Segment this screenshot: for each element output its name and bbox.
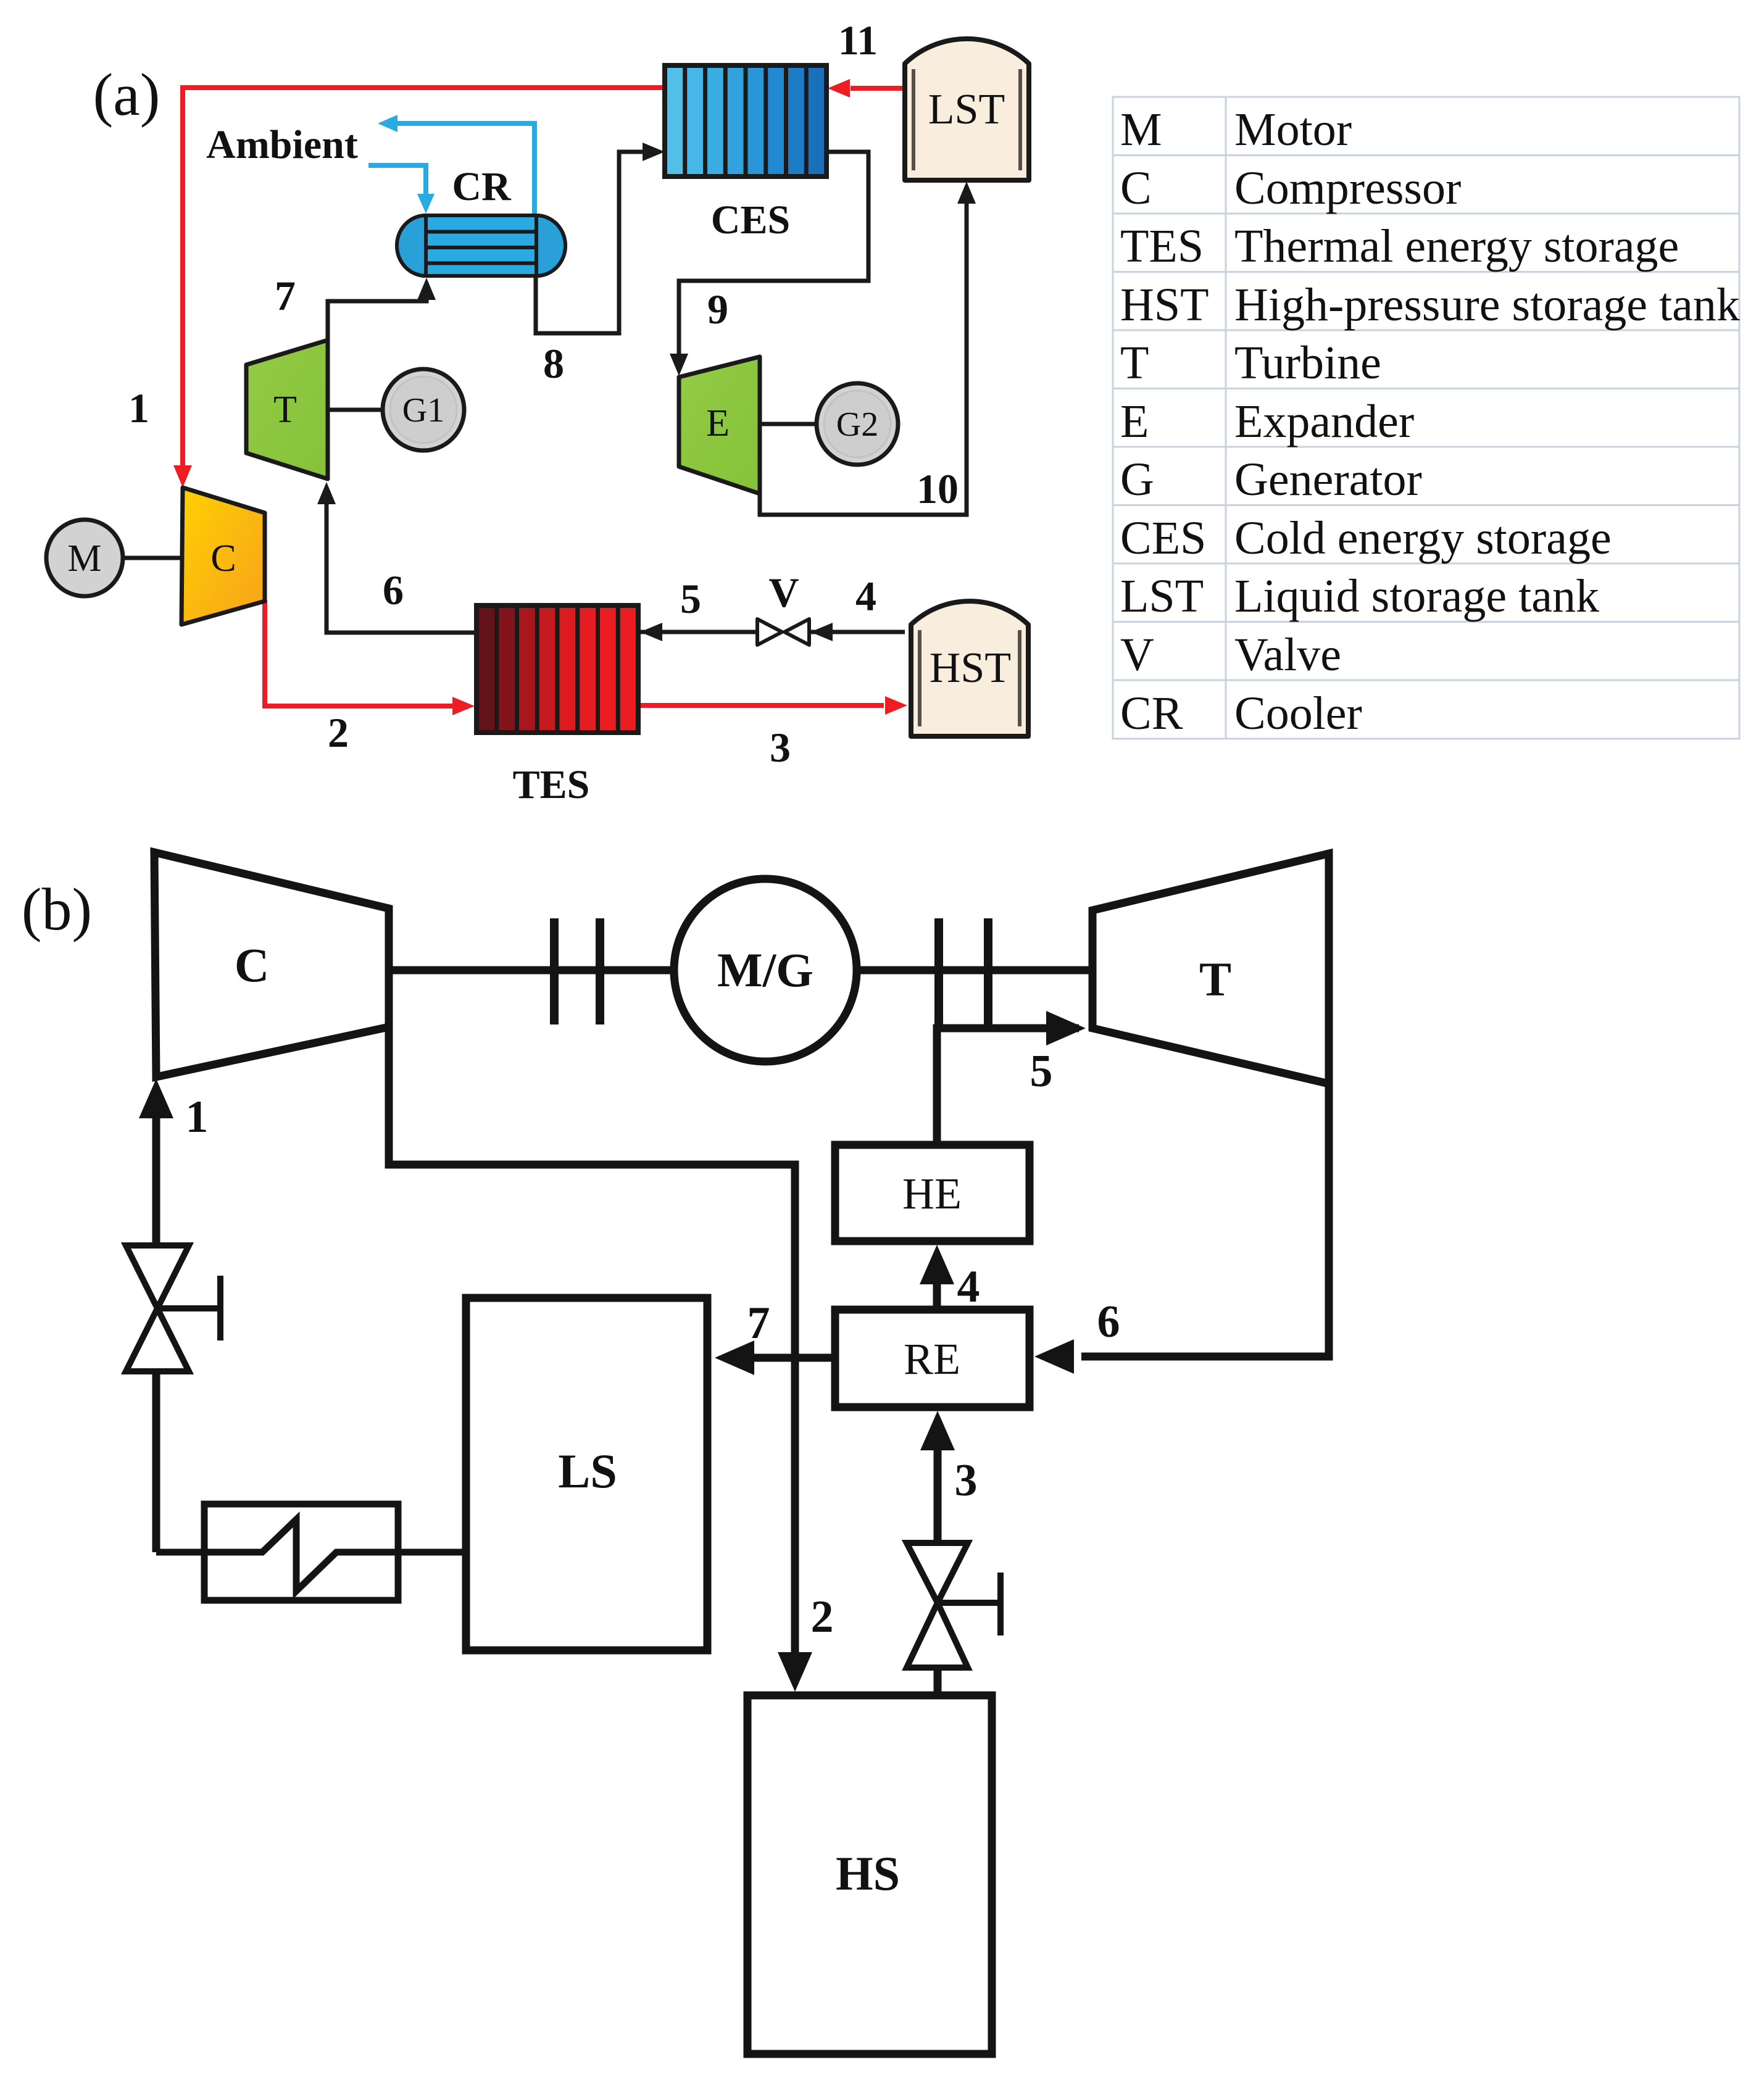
svg-text:M: M [1120, 104, 1162, 156]
svg-text:E: E [1120, 396, 1149, 447]
svg-text:E: E [706, 402, 730, 444]
svg-text:TES: TES [1120, 220, 1204, 272]
svg-text:1: 1 [186, 1092, 209, 1142]
svg-text:10: 10 [917, 465, 959, 512]
svg-text:M: M [67, 538, 101, 580]
svg-text:RE: RE [904, 1334, 960, 1384]
svg-text:G: G [1120, 454, 1154, 505]
svg-text:C: C [1120, 162, 1152, 214]
svg-text:C: C [210, 538, 236, 580]
svg-text:(b): (b) [22, 876, 92, 943]
svg-text:Motor: Motor [1234, 104, 1352, 156]
svg-text:CES: CES [711, 197, 790, 243]
svg-text:M/G: M/G [717, 943, 813, 997]
svg-text:Expander: Expander [1234, 396, 1414, 447]
svg-text:Generator: Generator [1234, 454, 1422, 505]
svg-text:High-pressure storage tank: High-pressure storage tank [1234, 279, 1740, 331]
svg-text:6: 6 [1097, 1297, 1120, 1347]
svg-text:8: 8 [543, 340, 564, 387]
svg-text:HS: HS [836, 1847, 900, 1900]
svg-text:3: 3 [770, 724, 791, 771]
svg-text:CR: CR [1120, 688, 1183, 739]
svg-text:4: 4 [957, 1261, 980, 1312]
svg-text:TES: TES [513, 762, 590, 807]
svg-text:Compressor: Compressor [1234, 162, 1461, 214]
svg-text:C: C [235, 938, 269, 992]
svg-text:Cold energy storage: Cold energy storage [1234, 512, 1612, 564]
svg-text:11: 11 [838, 17, 878, 64]
svg-text:Ambient: Ambient [206, 122, 358, 167]
svg-text:V: V [768, 569, 799, 616]
svg-text:CES: CES [1120, 512, 1206, 564]
svg-text:Thermal energy storage: Thermal energy storage [1234, 220, 1679, 272]
svg-text:Valve: Valve [1234, 629, 1341, 681]
svg-text:2: 2 [811, 1592, 834, 1642]
svg-text:4: 4 [855, 573, 876, 620]
svg-text:T: T [1199, 952, 1231, 1006]
svg-text:5: 5 [1030, 1046, 1053, 1097]
svg-text:HE: HE [902, 1169, 962, 1218]
svg-text:(a): (a) [93, 62, 160, 128]
svg-text:7: 7 [275, 272, 296, 319]
svg-text:6: 6 [383, 567, 404, 613]
svg-text:3: 3 [955, 1455, 978, 1506]
svg-text:LS: LS [558, 1444, 617, 1498]
svg-text:9: 9 [707, 286, 728, 333]
svg-text:LST: LST [928, 86, 1005, 133]
svg-text:LST: LST [1120, 570, 1204, 622]
svg-text:5: 5 [680, 575, 701, 622]
svg-text:T: T [273, 389, 297, 431]
svg-text:Liquid storage tank: Liquid storage tank [1234, 570, 1599, 622]
svg-text:CR: CR [452, 164, 512, 209]
svg-text:1: 1 [128, 384, 149, 431]
svg-text:HST: HST [1120, 279, 1209, 331]
svg-text:7: 7 [747, 1298, 770, 1349]
svg-text:V: V [1120, 629, 1154, 681]
svg-text:T: T [1120, 337, 1149, 389]
svg-text:Turbine: Turbine [1234, 337, 1381, 389]
svg-text:Cooler: Cooler [1234, 688, 1362, 739]
svg-text:G1: G1 [402, 391, 444, 430]
svg-text:2: 2 [328, 709, 349, 756]
svg-text:G2: G2 [836, 405, 878, 444]
svg-text:HST: HST [930, 644, 1011, 692]
